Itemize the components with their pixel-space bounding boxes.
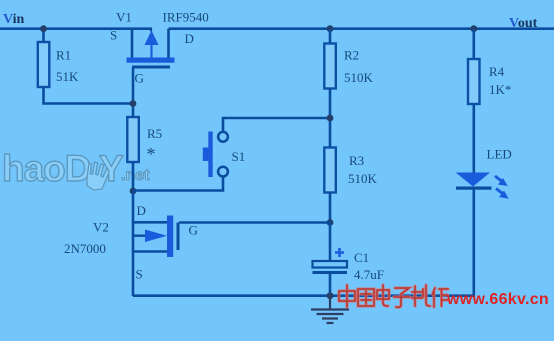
resistor R2	[324, 44, 336, 89]
transistor V1 (IRF9540 P-MOSFET)	[127, 29, 175, 69]
wire V1 source stub	[131, 29, 134, 58]
char guo outline	[358, 289, 374, 306]
S1 top terminal circle	[218, 132, 228, 142]
V2 channel bar	[167, 216, 173, 258]
wire R4 bottom to LED	[472, 104, 475, 173]
node top rail junction at R4	[470, 25, 477, 32]
node D junction (R3 / V2 gate / C1)	[327, 219, 334, 226]
node E junction (bottom rail / ground)	[327, 292, 334, 299]
wire V2 drain/source vertical	[132, 191, 135, 296]
wire V1 gate down to node A	[132, 68, 135, 117]
char zhong outline	[339, 285, 355, 307]
svg-text:Vin: Vin	[3, 12, 24, 27]
resistor R1	[38, 42, 50, 87]
capacitor C1	[313, 248, 348, 274]
LED D1	[456, 173, 509, 199]
V1 source arrow	[144, 31, 158, 46]
S1 button nub	[203, 148, 212, 162]
wire bottom rail	[133, 294, 474, 297]
svg-text:V1: V1	[116, 10, 132, 25]
wire V2 gate to node D	[179, 221, 330, 224]
svg-text:R1: R1	[56, 48, 71, 63]
svg-text:D: D	[185, 31, 194, 46]
svg-text:R5: R5	[147, 126, 162, 141]
svg-text:510K: 510K	[344, 70, 374, 85]
svg-text:2N7000: 2N7000	[64, 241, 106, 256]
svg-text:IRF9540: IRF9540	[163, 10, 209, 25]
svg-text:R4: R4	[489, 64, 505, 79]
net Vout label	[509, 16, 538, 31]
net Vin label	[3, 12, 24, 27]
char zi outline	[394, 288, 410, 307]
svg-text:G: G	[135, 71, 144, 86]
V1 channel bar	[127, 58, 175, 63]
char zuo outline	[433, 288, 449, 307]
S1 bottom terminal circle	[218, 167, 228, 177]
wire R5 bottom to node B	[132, 162, 135, 191]
node top rail junction at R2	[327, 25, 334, 32]
char guo	[358, 289, 374, 306]
wire top rail left (Vin to V1 source)	[0, 27, 152, 30]
wire LED to bottom rail	[472, 190, 475, 298]
wire top rail right (V1 drain to Vout)	[169, 27, 554, 30]
svg-text:D: D	[137, 203, 146, 218]
C1 bottom plate	[313, 271, 348, 274]
char zhong	[339, 285, 355, 307]
svg-text:www.66kv.cn: www.66kv.cn	[446, 291, 549, 308]
V1 gate bar	[132, 66, 170, 69]
watermark haoDIY.net	[2, 148, 150, 190]
svg-text:haoD: haoD	[2, 148, 91, 189]
node C junction (R2/R3/S1)	[327, 115, 334, 122]
svg-text:R3: R3	[349, 153, 364, 168]
C1 top plate	[313, 261, 348, 268]
svg-text:S: S	[136, 267, 143, 282]
wire V2 drain stub	[133, 221, 167, 224]
V2 gate bar	[177, 223, 180, 251]
wire C1 top stub	[329, 223, 332, 262]
wire R1 top stub	[42, 29, 45, 43]
svg-text:C1: C1	[354, 250, 369, 265]
node A junction (R1 / gate)	[130, 100, 137, 107]
wire R1 bottom to gate node	[44, 87, 134, 104]
node top rail junction at R1	[40, 25, 47, 32]
char zhi outline	[412, 285, 430, 306]
svg-text:S: S	[110, 28, 117, 43]
node B junction (R5 / S1 / V2 drain)	[130, 188, 137, 195]
svg-text:LED: LED	[487, 147, 512, 162]
C1 plus sign	[335, 248, 344, 257]
char zhi	[412, 285, 430, 306]
char zuo	[433, 288, 449, 307]
V2 arrow	[133, 234, 147, 236]
wire R3 bottom to node D	[329, 193, 332, 223]
svg-text:.net: .net	[121, 167, 150, 184]
wire R4 top stub	[472, 29, 475, 60]
LED cathode bar	[456, 187, 492, 190]
wire V2 source stub	[133, 250, 167, 253]
ground	[311, 296, 349, 323]
resistor R3	[324, 148, 336, 193]
resistor R5	[127, 117, 139, 162]
wire node B to S1 bottom	[133, 177, 223, 191]
wire C1 bottom stub	[329, 274, 332, 296]
char zi	[394, 288, 410, 307]
LED anode triangle	[456, 173, 490, 187]
LED light arrow 2	[496, 189, 505, 196]
wire R2 bottom to node C	[329, 89, 332, 148]
S1 actuator bar	[208, 132, 212, 178]
wire V1 drain stub	[167, 29, 170, 58]
char dian	[377, 285, 389, 306]
wire S1 top to R2/R3 node	[223, 118, 330, 132]
svg-text:R2: R2	[344, 48, 359, 63]
svg-text:510K: 510K	[348, 171, 378, 186]
svg-text:G: G	[189, 223, 198, 238]
switch S1 pushbutton	[203, 132, 228, 178]
svg-text:S1: S1	[232, 149, 246, 164]
transistor V2 (2N7000 N-MOSFET)	[133, 191, 180, 296]
LED light arrow 1	[495, 176, 504, 183]
svg-text:51K: 51K	[56, 69, 79, 84]
svg-text:1K*: 1K*	[489, 82, 511, 97]
resistor R4	[468, 59, 480, 104]
svg-text:4.7uF: 4.7uF	[354, 267, 384, 282]
watermark red chinese text	[339, 285, 448, 307]
svg-text:V2: V2	[93, 220, 109, 235]
wire R2 top stub	[329, 29, 332, 44]
svg-text:*: *	[147, 144, 156, 164]
char dian outline	[377, 285, 389, 306]
